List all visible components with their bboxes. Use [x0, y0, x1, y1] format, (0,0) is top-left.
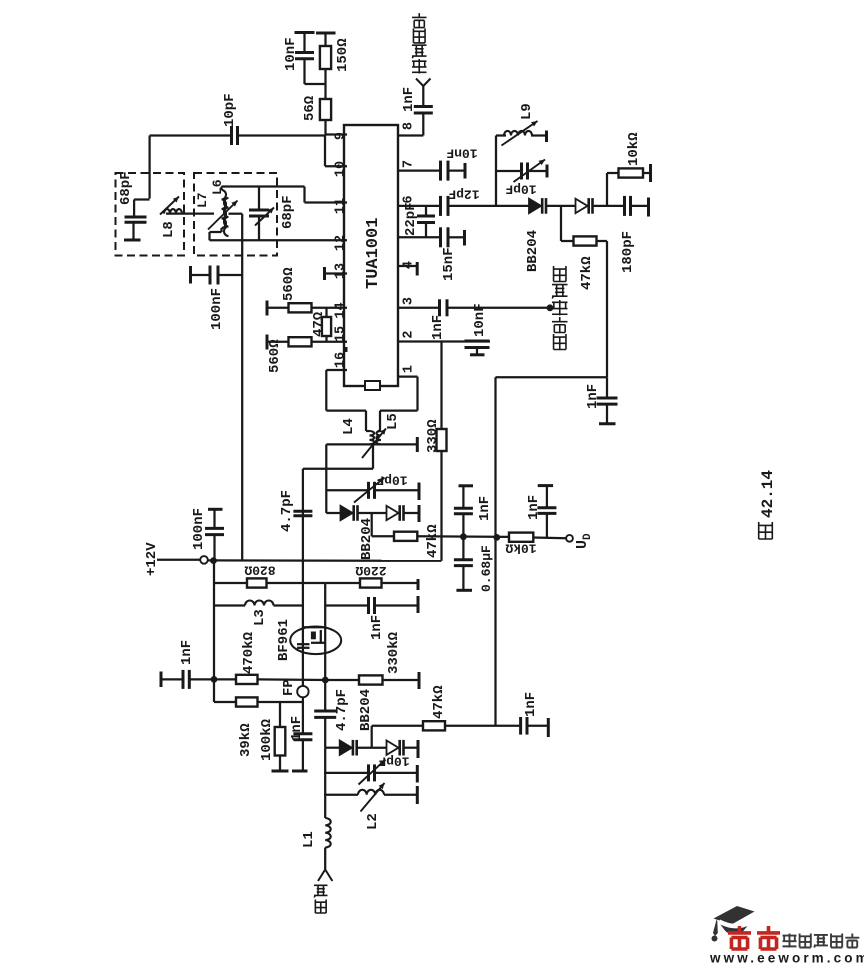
wire +12V lead [157, 559, 200, 561]
svg-text:BB204: BB204 [358, 689, 374, 731]
ground bar 1nF mid [459, 484, 474, 487]
svg-text:10pF: 10pF [376, 473, 407, 488]
capacitor 100nF rail [205, 527, 224, 530]
wire to 4.7pF [303, 468, 373, 470]
svg-text:10pF: 10pF [222, 93, 238, 127]
node AFC vertical [493, 534, 500, 541]
wire L2 row [324, 794, 358, 796]
wire [404, 747, 418, 749]
svg-text:1nF: 1nF [179, 640, 195, 665]
inductor L3 [245, 601, 274, 606]
svg-text:1nF: 1nF [369, 615, 385, 640]
capacitor 1nF bottom [519, 717, 522, 735]
wire [462, 514, 464, 537]
wire AFC long vertical [494, 377, 496, 726]
capacitor 10pF bottom trimmer [367, 764, 370, 781]
terminal UD circle [566, 535, 573, 542]
resistor 47k mid [394, 532, 417, 541]
svg-text:100nF: 100nF [191, 508, 207, 550]
ground bar 68pF [124, 239, 141, 242]
terminal bar 10nF pin7 [464, 163, 467, 179]
svg-text:L3: L3 [252, 609, 268, 626]
wire pin1 [398, 375, 418, 377]
wire [382, 582, 419, 584]
svg-text:56Ω: 56Ω [302, 95, 318, 121]
svg-text:9: 9 [334, 132, 349, 140]
svg-text:L7: L7 [195, 192, 210, 208]
wire gate2 row [214, 604, 245, 606]
wire pin4 stub [398, 265, 417, 267]
resistor 39kohm [236, 697, 258, 706]
diode BB204 varactor D4 [387, 506, 399, 520]
wire pin12 to tank box [210, 239, 348, 241]
inductor L7 [224, 198, 229, 236]
resistor 47ohm [322, 317, 331, 336]
wire 470k row [214, 678, 236, 680]
wire [448, 236, 464, 238]
resistor 10kohm UD [509, 533, 533, 542]
svg-text:10kΩ: 10kΩ [626, 132, 642, 166]
wire [445, 725, 521, 727]
resistor 560ohm lower [289, 337, 312, 346]
wire pin14 [312, 307, 348, 309]
wire 100k top [279, 702, 281, 727]
wire [606, 404, 608, 423]
svg-text:FP: FP [281, 679, 297, 696]
wire BB204 bottom row [325, 747, 340, 749]
capacitor 10pF mid trimmer [367, 482, 370, 499]
svg-text:L9: L9 [519, 103, 535, 120]
resistor 47kohm bottom [423, 721, 445, 730]
wire pin15 [312, 341, 348, 343]
wire BB204 mid row [326, 512, 340, 514]
logo site name characters [783, 934, 797, 948]
terminal FP circle [297, 686, 308, 697]
wire pin5 [398, 236, 441, 238]
terminal bar BB204 bottom [417, 740, 420, 758]
wire Q1 internal [311, 642, 325, 644]
ground bar 1nF AFC [599, 422, 616, 425]
inductor L8 [164, 209, 182, 214]
wire [303, 33, 305, 53]
wire [192, 274, 210, 276]
wire tank left down [325, 444, 327, 513]
dashed box L8 tank [116, 173, 185, 256]
terminal bar pin13 [323, 267, 326, 280]
svg-text:100kΩ: 100kΩ [259, 718, 275, 761]
svg-text:1: 1 [402, 365, 417, 373]
wire drain rail [214, 582, 325, 584]
wire [448, 169, 465, 171]
wire left column [213, 561, 215, 680]
wire [375, 772, 418, 774]
capacitor 4.7pF bottom [314, 710, 336, 713]
svg-text:4.7pF: 4.7pF [334, 689, 350, 731]
svg-text:www.eeworm.com: www.eeworm.com [709, 951, 864, 964]
wire osc output [447, 307, 550, 309]
ground bar 100k [272, 770, 289, 773]
wire [375, 489, 420, 491]
wire [366, 430, 370, 432]
wire [324, 848, 326, 870]
label antenna (tianxian) [314, 885, 328, 897]
svg-text:1nF: 1nF [526, 495, 542, 520]
wire source row right [325, 604, 368, 606]
terminal bar BB204 mid [418, 505, 421, 522]
wire pin3 [398, 307, 440, 309]
diode BB204 varactor D5 [340, 741, 352, 755]
wire [384, 794, 417, 796]
svg-text:2: 2 [402, 330, 417, 338]
wire [546, 514, 548, 538]
capacitor 10pF top trimmer [230, 126, 233, 145]
terminal bar pin4 [416, 262, 419, 276]
resistor 47k top-right [574, 236, 597, 245]
svg-text:47kΩ: 47kΩ [425, 524, 441, 558]
svg-text:L1: L1 [301, 831, 317, 848]
node oscillator output [547, 304, 554, 311]
svg-text:8: 8 [402, 122, 417, 130]
wire 330ohm top [440, 342, 442, 430]
wire [302, 469, 304, 512]
wire drain column [324, 583, 326, 677]
wire [258, 187, 260, 210]
svg-text:15: 15 [334, 326, 349, 342]
svg-text:1nF: 1nF [430, 315, 446, 340]
svg-text:0.68μF: 0.68μF [479, 545, 494, 592]
wire [134, 198, 150, 200]
wire 560ohm upper to bar [268, 307, 289, 309]
antenna arrow [318, 870, 332, 882]
terminal bar tank [416, 437, 419, 452]
terminal bar 15nF [463, 230, 466, 246]
capacitor 1nF mid [454, 507, 473, 510]
wire 47k mid row [372, 535, 394, 537]
wire cap lead [133, 200, 135, 217]
IF output arrow [416, 79, 431, 87]
ground bar 10nF pin2 [470, 353, 485, 356]
svg-text:1nF: 1nF [477, 496, 493, 521]
capacitor 10nF pin7 [439, 161, 442, 181]
wire [404, 512, 418, 514]
capacitor 100nF tank [209, 266, 212, 285]
wire [325, 582, 360, 584]
terminal bar 1nF gate [417, 596, 420, 613]
node 1nF/0.68uF tap [460, 533, 467, 540]
wire [279, 756, 281, 771]
wire [213, 509, 215, 528]
wire Q1 channel [320, 630, 322, 643]
svg-text:10pF: 10pF [505, 182, 536, 197]
svg-text:4: 4 [402, 261, 417, 269]
wire [462, 486, 464, 508]
svg-text:10nF: 10nF [283, 37, 299, 71]
wire [380, 409, 418, 411]
wire pins9-10 tie [324, 135, 326, 167]
ground bar 1nF right [538, 484, 553, 487]
svg-text:10pF: 10pF [378, 754, 409, 769]
svg-text:1nF: 1nF [401, 87, 417, 112]
wire pin8 up [422, 114, 424, 136]
diode BB204 varactor D1 [529, 199, 541, 213]
svg-text:TUA1001: TUA1001 [364, 218, 383, 289]
wire [324, 717, 326, 747]
wire [462, 566, 464, 589]
svg-text:16: 16 [334, 352, 349, 368]
transistor Q1 BF961 [290, 627, 341, 655]
svg-text:BF961: BF961 [276, 619, 292, 661]
wire [210, 231, 222, 233]
inductor L4 [370, 431, 375, 444]
svg-text:UD: UD [574, 533, 594, 549]
svg-text:330Ω: 330Ω [425, 419, 441, 453]
svg-text:13: 13 [334, 263, 349, 279]
wire pin1 down [416, 377, 418, 411]
wire [422, 86, 424, 107]
terminal bar upper 560 [266, 301, 269, 316]
wire tank tap [229, 213, 243, 215]
wire pin13 stub [326, 272, 348, 274]
capacitor 1nF far-left [182, 670, 185, 689]
wire [378, 430, 382, 432]
wire Q1 internal top [304, 626, 326, 628]
capacitor 10nF pin2 [465, 340, 490, 343]
svg-text:820Ω: 820Ω [244, 563, 275, 578]
capacitor 180pF [623, 196, 626, 216]
svg-text:10nF: 10nF [472, 303, 488, 337]
wire 47ohm bottom lead [325, 336, 327, 342]
wire 330ohm bottom to rail [440, 451, 442, 561]
label IF output (zhongpin shuchu) [412, 59, 427, 74]
wire [324, 33, 326, 46]
resistor 560ohm upper [289, 303, 312, 312]
inductor L2 variable [358, 790, 384, 795]
resistor 100kohm [275, 727, 286, 756]
wire [561, 240, 574, 242]
wire [496, 170, 522, 172]
wire gate1 column [302, 511, 304, 686]
wire [357, 747, 386, 749]
svg-text:6: 6 [402, 195, 417, 203]
svg-text:220Ω: 220Ω [355, 563, 386, 578]
wire [379, 411, 381, 431]
svg-text:10kΩ: 10kΩ [505, 541, 536, 556]
logo graduation cap [714, 906, 755, 925]
terminal bar 100nF rail [208, 508, 223, 511]
capacitor 1nF right [537, 506, 556, 509]
wire [218, 274, 242, 276]
wire 39k row [214, 701, 303, 703]
resistor 330kohm [359, 675, 383, 684]
svg-text:L4: L4 [341, 418, 357, 435]
terminal bar 220ohm [417, 579, 420, 590]
wire [213, 535, 215, 561]
capacitor 68pF in L8 box [125, 216, 147, 219]
wire to UD [533, 536, 566, 539]
wire [607, 172, 619, 174]
svg-text:68pF: 68pF [280, 195, 296, 229]
svg-text:12pF: 12pF [448, 187, 479, 202]
wire [425, 223, 427, 237]
capacitor 1nF pin8 [414, 105, 433, 108]
wire [274, 604, 303, 606]
node source [322, 677, 329, 684]
wire Q1 gate2 bar [297, 647, 310, 649]
wire pin16 [326, 369, 347, 371]
diode BB204 varactor D2 [576, 199, 588, 213]
wire [303, 59, 305, 84]
svg-text:12: 12 [334, 235, 349, 251]
inductor L1 [325, 818, 331, 848]
diode BB204 varactor D6 [387, 741, 399, 755]
wire [593, 205, 625, 207]
capacitor 10nF top-left [295, 51, 314, 54]
wire varactor tap up [371, 726, 373, 748]
terminal bar 100nF [189, 266, 192, 284]
svg-text:4.7pF: 4.7pF [279, 490, 295, 532]
IC bottom tab [365, 381, 380, 390]
terminal bar 10pF bottom [416, 765, 419, 783]
wire [476, 348, 478, 355]
capacitor 0.68uF [454, 558, 473, 561]
inductor L5 [376, 431, 381, 444]
wire [258, 678, 326, 681]
svg-text:11: 11 [334, 198, 349, 214]
wire [375, 604, 419, 606]
capacitor 1nF FP [293, 732, 312, 735]
wire FP down [302, 697, 304, 733]
ground bar 1nF FP [292, 770, 308, 773]
wire [496, 134, 506, 136]
wire [220, 228, 222, 232]
wire [302, 740, 304, 770]
wire [324, 120, 326, 135]
svg-text:14: 14 [334, 302, 349, 318]
label oscillator output (zhendangqi shuchu) [554, 334, 566, 350]
terminal bar 10pF L9 [546, 165, 549, 178]
wire antenna column [324, 748, 326, 818]
svg-text:47Ω: 47Ω [311, 311, 327, 337]
wire 10pF bottom row [324, 772, 369, 774]
wire 4.7pF bottom top lead [324, 680, 326, 711]
op-amp U1 TUA1001 IC body [344, 125, 398, 386]
wire 10pF row right [238, 134, 326, 136]
ground bar 0.68uF [456, 589, 472, 592]
dashed box L6/L7 tank [194, 173, 277, 256]
diode BB204 varactor D3 [341, 506, 353, 520]
terminal bar 330k [418, 672, 421, 689]
svg-text:47kΩ: 47kΩ [579, 256, 595, 290]
logo chongchong red characters [728, 926, 751, 949]
wire [425, 206, 427, 216]
svg-text:560Ω: 560Ω [267, 339, 283, 373]
terminal bar 1nF far-left [160, 672, 163, 688]
capacitor 1nF gate [367, 597, 370, 614]
wire [372, 444, 374, 468]
svg-text:100nF: 100nF [209, 288, 225, 330]
wire L9 column [495, 136, 497, 206]
resistor 150ohm [320, 46, 331, 69]
wire 10pF row left [150, 134, 232, 136]
wire 560ohm lower to bar [268, 341, 289, 343]
wire [643, 172, 650, 174]
resistor 56ohm [320, 99, 331, 120]
svg-text:7: 7 [402, 160, 417, 168]
wire tank top [222, 185, 305, 187]
terminal bar lower 560 [266, 335, 269, 350]
wire [213, 680, 215, 702]
capacitor 4.7pF gate1 [293, 510, 312, 513]
capacitor 12pF pin6 [439, 196, 442, 216]
wire [631, 205, 649, 207]
svg-text:1nF: 1nF [289, 716, 305, 741]
svg-text:L8: L8 [161, 221, 177, 238]
terminal bar 10pF mid [418, 483, 421, 501]
wire tank bottom [326, 443, 417, 445]
wire [365, 411, 367, 431]
wire varactor mid tap [560, 206, 562, 241]
wire [531, 134, 546, 136]
svg-text:39kΩ: 39kΩ [238, 723, 254, 757]
wire [417, 535, 509, 538]
resistor 470kohm [236, 675, 258, 684]
wire [324, 69, 326, 99]
wire into L8 box [148, 136, 150, 199]
resistor 220ohm [360, 578, 382, 587]
svg-text:BB204: BB204 [525, 230, 541, 272]
wire down to AFC line [606, 241, 608, 377]
svg-text:68pF: 68pF [118, 171, 134, 205]
wire [547, 205, 576, 207]
wire [383, 679, 418, 681]
svg-text:42.14: 42.14 [759, 470, 777, 518]
wire L8 to L7 [166, 212, 214, 214]
inductor L9 variable [504, 131, 532, 136]
terminal +12V circle [200, 556, 208, 564]
capacitor 15nF pin5 [439, 227, 442, 247]
terminal bar 10k [649, 164, 652, 182]
svg-text:330kΩ: 330kΩ [386, 631, 402, 674]
wire [527, 725, 548, 727]
svg-text:1nF: 1nF [585, 384, 601, 409]
wire varactor mid tap down [371, 513, 373, 536]
svg-text:470kΩ: 470kΩ [241, 631, 257, 674]
wire 10pF mid row [326, 489, 368, 491]
wire +12V rail [208, 559, 442, 562]
wire long vertical to rail [241, 214, 243, 561]
IC edge mark [344, 347, 348, 352]
node 1nF far-left [211, 676, 218, 683]
svg-text:3: 3 [402, 297, 417, 305]
wire [208, 232, 210, 240]
wire [220, 187, 222, 191]
wire [546, 486, 548, 507]
label figure 42.14 [759, 522, 773, 539]
svg-text:10nF: 10nF [446, 146, 477, 161]
svg-text:L5: L5 [385, 413, 401, 430]
terminal bar 10nF top [295, 31, 315, 34]
wire [462, 537, 464, 559]
wire [258, 216, 260, 240]
svg-text:L2: L2 [365, 813, 381, 830]
wire 47k bottom row [372, 725, 423, 727]
svg-text:10: 10 [334, 161, 349, 177]
wire [161, 678, 183, 680]
wire [597, 240, 608, 242]
wire AFC horizontal [496, 376, 608, 378]
terminal bar 180pF [647, 198, 650, 217]
terminal bar 150ohm top [316, 32, 336, 35]
